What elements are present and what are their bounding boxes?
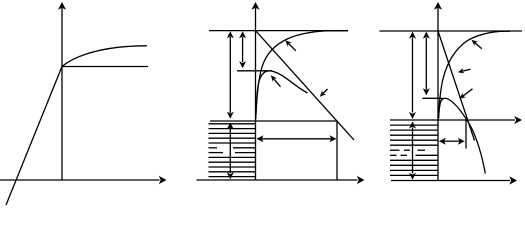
graph1 elastic line [6, 67, 62, 206]
graph2 top line [209, 30, 348, 32]
graph2 load line [256, 31, 355, 140]
graph3 horizontal double arrow [444, 140, 460, 142]
graph2 long double arrow [229, 37, 231, 113]
graph2 pointer at hump [274, 79, 281, 87]
graph3 y-axis [437, 8, 439, 181]
graph2 horizontal double arrow [262, 138, 331, 140]
graph3 short level line at hump [422, 97, 442, 99]
graph2 y-axis [255, 8, 257, 180]
graph3 middle x-axis [390, 119, 515, 121]
graph2 level line [210, 120, 337, 122]
graph3 load line steep [438, 31, 475, 141]
graph2 lower double arrow [229, 129, 231, 173]
graph2 pointer at load line [323, 89, 327, 94]
graph1 horizontal line [62, 66, 148, 68]
graph3 pointer at hump tail [463, 89, 473, 96]
graph3 pointer at load line [462, 69, 470, 71]
graph1 curve [62, 46, 147, 67]
graph1 x-axis [0, 179, 160, 181]
graph2 magnet hatch [209, 123, 256, 125]
graph3 top line [380, 30, 523, 32]
graph3 short double arrow [425, 38, 427, 90]
graph3 bottom x-axis [391, 180, 510, 182]
graph3 hump curve [439, 98, 486, 173]
graph2 pointer at upper curve [289, 44, 296, 51]
graph2 hump curve [256, 71, 308, 119]
graph3 magnet hatch [390, 124, 438, 126]
graph2 right vertical line [336, 121, 338, 180]
graph2 upper curve [256, 31, 348, 119]
graph3 long double arrow [412, 38, 414, 113]
graph2 x-axis [197, 179, 358, 181]
graph2 short double arrow [242, 37, 244, 62]
graph3 pointer at upper curve [475, 43, 482, 49]
graph2 short level line at hump [237, 70, 272, 72]
graph3 lower double arrow [412, 128, 414, 174]
graph3 vertical tick [465, 120, 467, 149]
graph3 upper curve [439, 31, 510, 118]
graph1 y-axis [61, 8, 63, 180]
